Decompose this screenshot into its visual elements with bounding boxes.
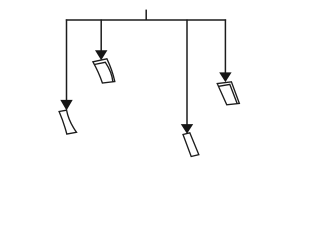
load card L2: [93, 59, 115, 83]
feeder stub: [145, 10, 147, 20]
load card L1: [59, 110, 76, 134]
arrow 3: [181, 124, 193, 134]
wire drop 2: [100, 19, 102, 52]
load card L2 inner edge: [94, 62, 113, 82]
load card L3: [183, 133, 199, 157]
wire drop 4: [224, 19, 226, 74]
bus wire: [66, 19, 226, 21]
arrow 1: [60, 100, 72, 111]
arrow 4: [219, 72, 231, 82]
wire drop 1: [66, 19, 68, 101]
load card L4: [217, 82, 239, 105]
wire drop 3: [186, 19, 188, 125]
arrow 2: [95, 50, 107, 60]
load card L4 inner edge: [219, 84, 238, 103]
